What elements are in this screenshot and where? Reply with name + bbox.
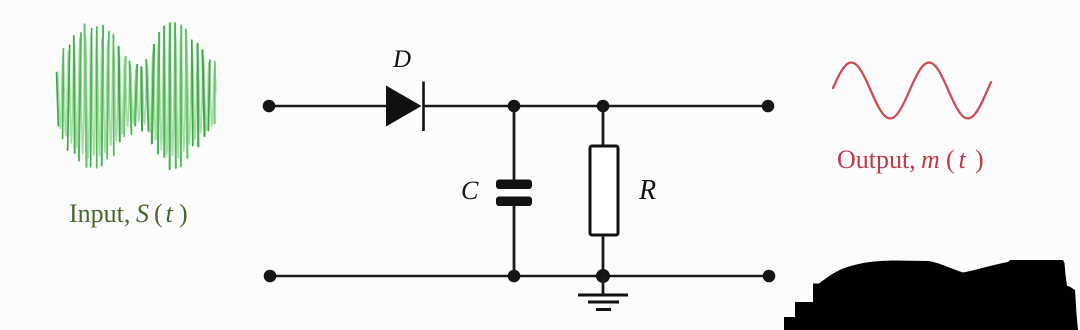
wire resistor branch lower — [602, 235, 605, 276]
svg-text:Input,S(t): Input,S(t) — [69, 199, 188, 228]
svg-text:D: D — [392, 46, 411, 73]
node output top terminal — [762, 100, 775, 113]
input AM waveform light zigzag — [57, 32, 216, 158]
svg-text:R: R — [638, 175, 656, 206]
svg-text:C: C — [461, 176, 479, 205]
input AM waveform dark carrier strokes — [57, 23, 215, 169]
capacitor C bottom plate — [496, 197, 532, 207]
node junction top R — [597, 100, 610, 113]
node junction top C — [508, 100, 521, 113]
svg-text:Output,m(t): Output,m(t) — [837, 145, 984, 174]
resistor R body — [590, 146, 618, 235]
wire bottom — [270, 275, 769, 278]
node output bottom terminal — [763, 270, 776, 283]
wire capacitor branch lower — [513, 206, 516, 276]
node input bottom terminal — [264, 270, 277, 283]
wire top right segment — [424, 105, 768, 108]
capacitor C top plate — [496, 180, 532, 190]
node input top terminal — [263, 100, 276, 113]
censored watermark blob — [784, 260, 1078, 330]
ground bar 1 — [578, 294, 628, 297]
ground bar 2 — [588, 301, 619, 304]
wire resistor branch upper — [602, 106, 605, 147]
node junction bottom R — [596, 269, 610, 283]
ground bar 3 — [596, 308, 611, 311]
wire capacitor branch upper — [513, 106, 516, 180]
output sine wave — [833, 63, 991, 119]
ground stub — [602, 276, 605, 294]
diode D — [386, 86, 422, 127]
wire top left segment — [269, 105, 388, 108]
diode D cathode bar — [422, 82, 425, 132]
node junction bottom C — [508, 270, 521, 283]
